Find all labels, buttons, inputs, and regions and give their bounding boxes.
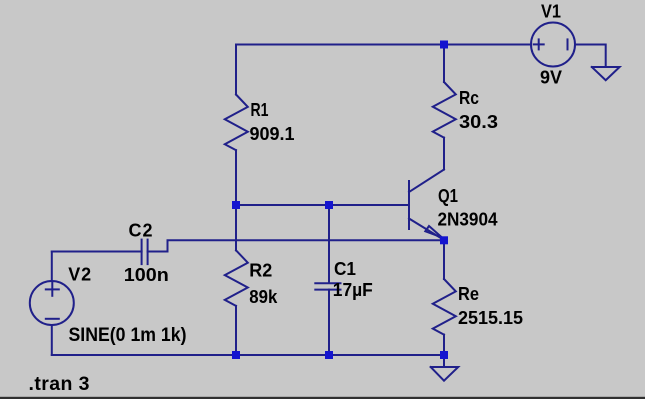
svg-text:Q1: Q1 xyxy=(438,186,458,206)
wire top rail xyxy=(236,44,531,46)
svg-text:89k: 89k xyxy=(249,287,278,307)
transistor Q1 xyxy=(409,170,444,241)
bottom window edge xyxy=(0,397,645,399)
wire V2 bottom stub xyxy=(51,325,53,355)
wire Rc bottom stub xyxy=(443,138,445,170)
voltage source V2 xyxy=(30,281,74,325)
wire V1 right xyxy=(575,45,606,68)
svg-text:30.3: 30.3 xyxy=(459,112,498,132)
wire R2 bottom stub xyxy=(235,306,237,355)
capacitor C1 xyxy=(315,282,340,284)
wire C1 top stub xyxy=(328,205,330,283)
ground bottom xyxy=(443,355,445,367)
svg-text:V2: V2 xyxy=(68,265,91,285)
node base/C1 xyxy=(325,201,333,209)
wire R1 bottom stub xyxy=(235,150,237,205)
junction nodes xyxy=(232,41,448,360)
wire C2 to emitter node xyxy=(148,240,444,251)
svg-text:Rc: Rc xyxy=(459,88,479,108)
wire to C2 xyxy=(52,251,142,253)
resistor Re xyxy=(433,279,456,335)
wire Re bottom stub xyxy=(443,335,445,355)
svg-text:Re: Re xyxy=(458,284,479,304)
svg-text:.tran 3: .tran 3 xyxy=(29,373,90,395)
voltage source V1 xyxy=(531,23,575,67)
wire R1 top stub xyxy=(235,45,237,95)
node base/R1/R2 xyxy=(232,201,240,209)
wire C1 bottom stub xyxy=(328,290,330,355)
svg-text:909.1: 909.1 xyxy=(250,124,295,144)
svg-text:R2: R2 xyxy=(249,261,272,281)
wire bottom rail xyxy=(52,354,444,356)
wire R2 top stub xyxy=(235,205,237,250)
svg-text:SINE(0 1m 1k): SINE(0 1m 1k) xyxy=(69,324,187,346)
node bottom Re/gnd xyxy=(440,351,448,359)
wire Re top stub xyxy=(443,240,445,279)
capacitor C2 xyxy=(141,240,143,265)
node emitter xyxy=(440,236,448,244)
ground top right xyxy=(592,67,620,80)
wire V2 top stub xyxy=(51,252,53,282)
node Rc/top rail xyxy=(440,41,448,49)
resistor R2 xyxy=(225,250,248,306)
wire base rail xyxy=(236,204,409,206)
svg-text:C2: C2 xyxy=(129,221,153,241)
svg-text:V1: V1 xyxy=(541,2,561,22)
svg-text:R1: R1 xyxy=(251,100,269,120)
wire Rc top stub xyxy=(443,45,445,83)
svg-text:17µF: 17µF xyxy=(333,280,373,300)
svg-text:9V: 9V xyxy=(540,68,562,88)
resistor Rc xyxy=(433,82,456,138)
resistor R1 xyxy=(225,95,248,151)
svg-text:2515.15: 2515.15 xyxy=(458,308,523,328)
svg-text:2N3904: 2N3904 xyxy=(438,210,498,230)
svg-text:100n: 100n xyxy=(124,265,169,285)
svg-text:C1: C1 xyxy=(334,259,356,279)
node bottom C1 xyxy=(325,351,333,359)
node bottom R2 xyxy=(232,351,240,359)
